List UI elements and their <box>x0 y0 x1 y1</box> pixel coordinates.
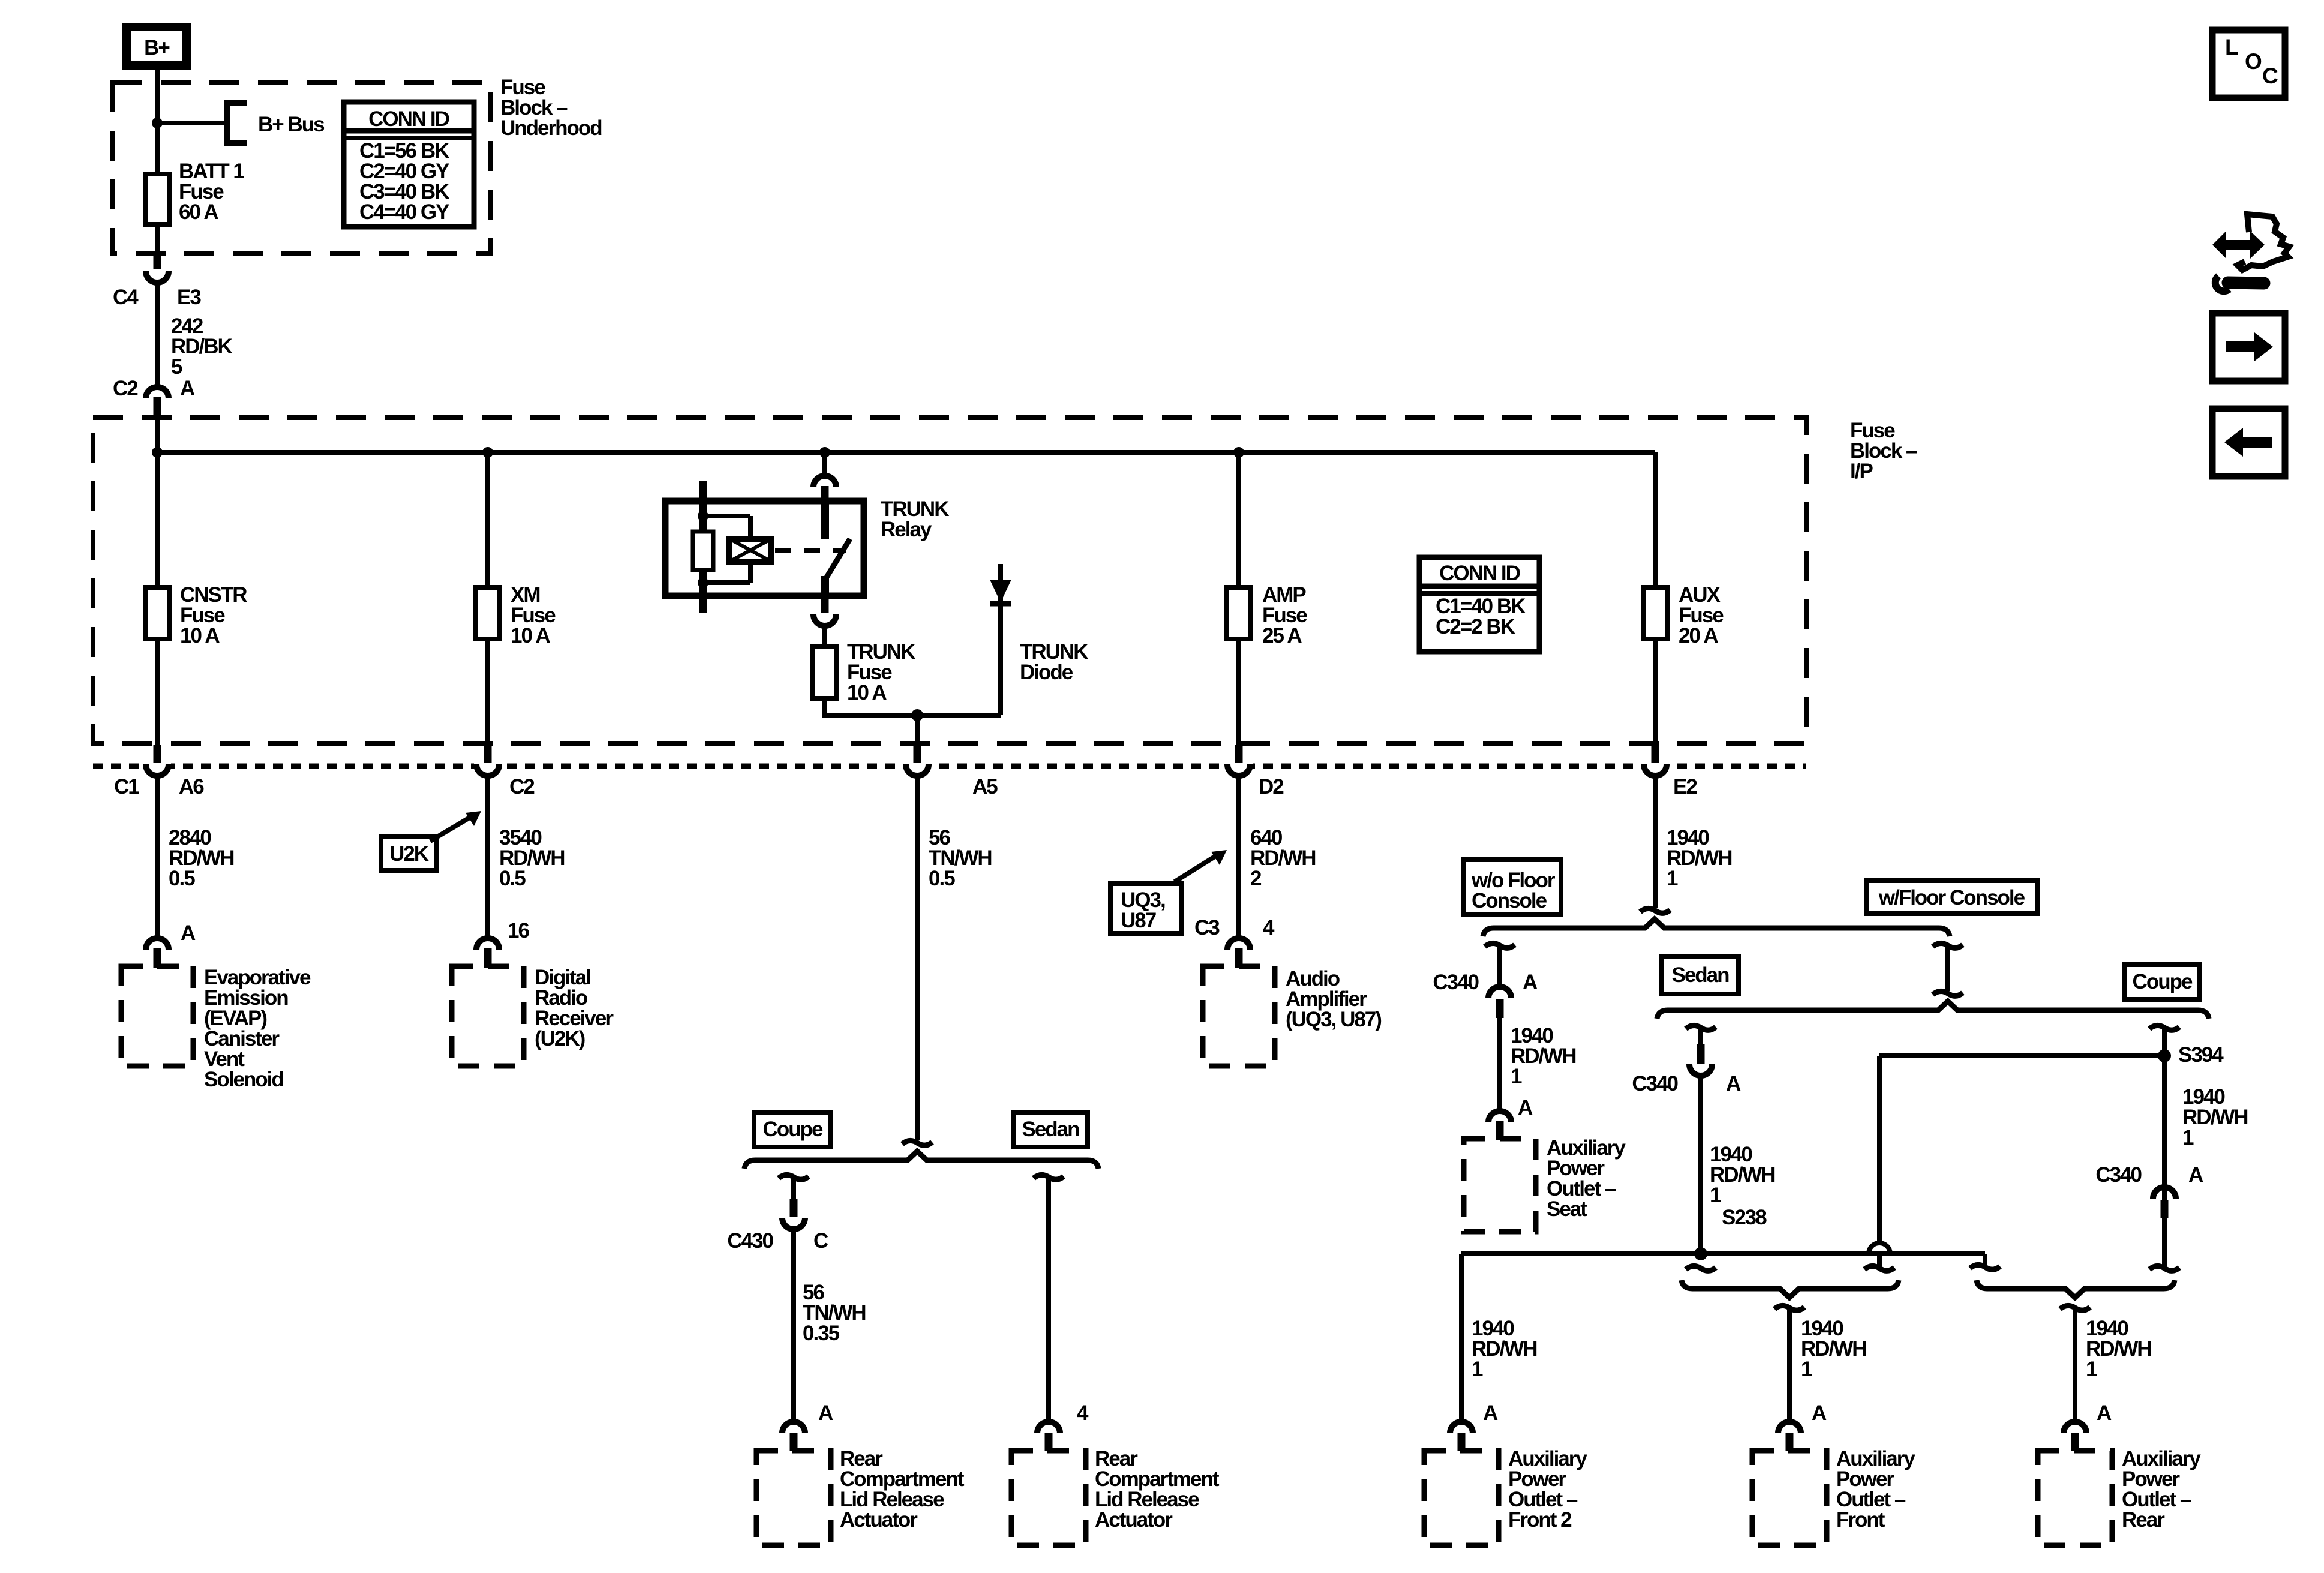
svg-text:1: 1 <box>2182 1126 2194 1149</box>
svg-text:0.35: 0.35 <box>803 1322 840 1345</box>
svg-text:C4: C4 <box>113 286 139 309</box>
svg-text:Relay: Relay <box>881 518 932 541</box>
svg-text:A: A <box>2188 1163 2203 1187</box>
svg-text:25 A: 25 A <box>1262 624 1302 647</box>
svg-text:C3: C3 <box>1194 916 1220 939</box>
svg-text:E3: E3 <box>177 286 201 309</box>
svg-text:Coupe: Coupe <box>763 1118 823 1141</box>
svg-text:B+ Bus: B+ Bus <box>258 113 325 136</box>
svg-text:5: 5 <box>171 355 182 379</box>
svg-text:Sedan: Sedan <box>1022 1118 1079 1141</box>
svg-text:Front 2: Front 2 <box>1508 1508 1572 1532</box>
svg-text:1: 1 <box>1511 1065 1522 1088</box>
svg-text:Underhood: Underhood <box>500 116 602 140</box>
svg-text:0.5: 0.5 <box>169 867 195 890</box>
svg-text:Solenoid: Solenoid <box>204 1068 283 1091</box>
svg-text:O: O <box>2245 49 2262 74</box>
svg-text:1: 1 <box>1472 1358 1483 1381</box>
svg-text:A6: A6 <box>179 775 204 798</box>
svg-text:C: C <box>2262 64 2278 88</box>
svg-text:Console: Console <box>1472 889 1547 912</box>
svg-text:A: A <box>1726 1072 1741 1095</box>
svg-text:0.5: 0.5 <box>929 867 955 890</box>
svg-text:C4=40 GY: C4=40 GY <box>359 200 449 224</box>
svg-text:16: 16 <box>508 919 529 942</box>
svg-text:D2: D2 <box>1259 775 1284 798</box>
svg-text:1: 1 <box>2086 1358 2097 1381</box>
svg-text:S238: S238 <box>1722 1206 1767 1229</box>
svg-text:10 A: 10 A <box>511 624 550 647</box>
svg-text:Coupe: Coupe <box>2133 970 2193 993</box>
svg-text:0.5: 0.5 <box>499 867 526 890</box>
svg-text:A: A <box>818 1401 833 1425</box>
svg-text:Actuator: Actuator <box>1095 1508 1173 1532</box>
svg-text:L: L <box>2225 35 2238 59</box>
svg-text:1: 1 <box>1667 867 1678 890</box>
svg-text:A: A <box>1483 1401 1498 1425</box>
svg-text:Sedan: Sedan <box>1671 963 1729 987</box>
svg-text:Diode: Diode <box>1020 661 1073 684</box>
svg-text:C2: C2 <box>113 377 138 400</box>
svg-text:Front: Front <box>1836 1508 1885 1532</box>
svg-text:10 A: 10 A <box>847 681 887 704</box>
svg-text:w/Floor Console: w/Floor Console <box>1878 886 2025 909</box>
svg-text:C430: C430 <box>727 1229 773 1253</box>
svg-text:4: 4 <box>1263 916 1275 939</box>
svg-text:20 A: 20 A <box>1679 624 1718 647</box>
svg-text:(UQ3, U87): (UQ3, U87) <box>1286 1008 1381 1031</box>
svg-text:C340: C340 <box>1433 971 1479 994</box>
svg-text:CONN ID: CONN ID <box>368 107 449 131</box>
svg-text:10 A: 10 A <box>180 624 220 647</box>
svg-text:E2: E2 <box>1673 775 1697 798</box>
svg-text:Actuator: Actuator <box>840 1508 918 1532</box>
svg-text:(U2K): (U2K) <box>535 1027 585 1050</box>
svg-text:A: A <box>1523 971 1538 994</box>
svg-text:A: A <box>180 377 195 400</box>
svg-text:U87: U87 <box>1121 909 1156 932</box>
svg-text:C: C <box>813 1229 828 1253</box>
svg-text:Rear: Rear <box>2122 1508 2165 1532</box>
svg-text:A: A <box>2097 1401 2112 1425</box>
svg-text:C340: C340 <box>2095 1163 2142 1187</box>
svg-text:I/P: I/P <box>1850 460 1873 483</box>
svg-text:4: 4 <box>1077 1401 1089 1425</box>
svg-text:Seat: Seat <box>1547 1197 1587 1221</box>
svg-text:S394: S394 <box>2178 1043 2224 1067</box>
svg-text:1: 1 <box>1710 1184 1721 1207</box>
svg-text:CONN ID: CONN ID <box>1439 562 1520 585</box>
svg-text:60 A: 60 A <box>179 200 218 224</box>
svg-text:2: 2 <box>1250 867 1262 890</box>
svg-text:B+: B+ <box>144 36 170 59</box>
svg-text:C2=2 BK: C2=2 BK <box>1436 615 1515 638</box>
svg-text:A: A <box>1812 1401 1827 1425</box>
svg-text:A5: A5 <box>972 775 998 798</box>
svg-text:A: A <box>1518 1096 1533 1119</box>
svg-text:A: A <box>181 921 196 945</box>
svg-text:C340: C340 <box>1632 1072 1678 1095</box>
svg-text:C2: C2 <box>509 775 535 798</box>
svg-text:1: 1 <box>1801 1358 1812 1381</box>
svg-text:C1: C1 <box>114 775 139 798</box>
svg-text:U2K: U2K <box>389 842 429 866</box>
